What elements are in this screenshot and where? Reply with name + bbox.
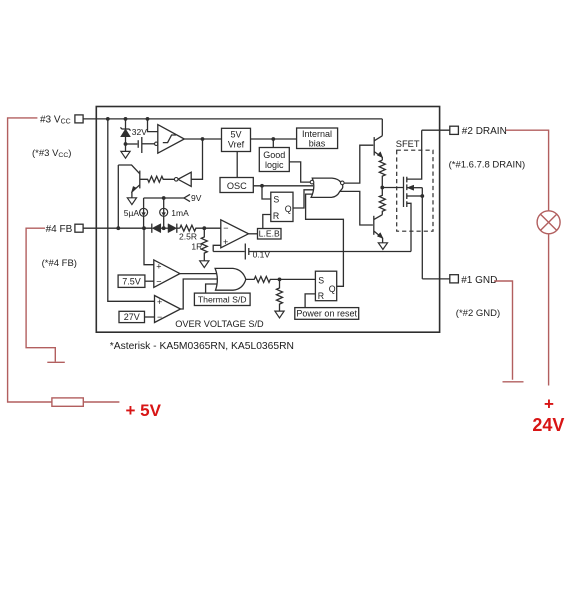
- svg-text:−: −: [223, 223, 228, 233]
- wire OSC dot to S input: [262, 186, 271, 199]
- svg-text:7.5V: 7.5V: [122, 276, 141, 286]
- ground arrow below zener: [125, 144, 127, 151]
- svg-text:bias: bias: [309, 139, 326, 149]
- block Internal bias: [297, 128, 338, 149]
- wire Vcc tap to comparator noninverting input: [148, 119, 158, 132]
- wire Good logic to NOR input 1: [289, 162, 310, 182]
- svg-text:OVER VOLTAGE S/D: OVER VOLTAGE S/D: [175, 319, 264, 329]
- svg-text:24V: 24V: [532, 415, 564, 435]
- transistor Q1 FB pulldown: [139, 171, 141, 189]
- resistor 1R (vertical): [201, 228, 207, 260]
- wire sense comparator plus input: [213, 245, 221, 251]
- node dot between diodes: [162, 226, 166, 230]
- node dot OSC output: [260, 184, 264, 188]
- svg-text:32V: 32V: [132, 127, 147, 137]
- block Thermal S/D: [194, 293, 250, 305]
- wire Vcc rail corner to Q2 collector: [381, 119, 383, 136]
- block OSC: [220, 178, 253, 193]
- svg-text:+: +: [223, 237, 228, 247]
- wire 27V box to minus input: [145, 316, 155, 318]
- block 27V: [119, 311, 145, 322]
- zener diode 32V anode wire: [125, 119, 127, 129]
- svg-text:logic: logic: [265, 160, 284, 170]
- svg-text:S: S: [318, 275, 324, 285]
- wire NOR output to upper driver base: [344, 145, 373, 183]
- wire sense rail right: [249, 251, 411, 253]
- block Power on reset: [295, 308, 359, 320]
- pin #2 DRAIN square: [450, 126, 459, 134]
- wire Vcc rail: [108, 118, 383, 120]
- pin #3 Vcc square: [75, 115, 83, 123]
- svg-text:+: +: [544, 395, 554, 414]
- wire red drain to lamp: [506, 130, 549, 211]
- current source 1mA: [163, 198, 165, 208]
- mosfet body arrow stub: [407, 187, 423, 189]
- svg-text:Good: Good: [263, 150, 285, 160]
- wire Vcc to 27V comparator (long vertical): [108, 119, 155, 301]
- ground arrow below Q3: [378, 243, 387, 250]
- ground arrow below Q1: [127, 198, 136, 205]
- mosfet source stub to gnd: [421, 188, 423, 279]
- svg-text:−: −: [157, 312, 162, 322]
- svg-text:Q: Q: [285, 204, 292, 214]
- svg-text:*Asterisk - KA5M0365RN, KA5L03: *Asterisk - KA5M0365RN, KA5L0365RN: [110, 341, 294, 352]
- svg-text:#2 DRAIN: #2 DRAIN: [462, 126, 507, 137]
- svg-text:(*#3 VCC): (*#3 VCC): [32, 148, 71, 159]
- zener diode 32V: [121, 129, 130, 136]
- ground arrow below OVP resistor: [275, 311, 284, 318]
- wire comparator output down to inverter input: [191, 139, 202, 179]
- ground arrow below 1R: [200, 261, 209, 268]
- node dot 2.5R-1R: [202, 226, 206, 230]
- svg-text:+: +: [157, 297, 162, 307]
- node dot FB-5uA-7.5V: [142, 226, 146, 230]
- node dot comparator output: [201, 137, 205, 141]
- op-amp U1 UVLO hysteresis comparator: [158, 125, 185, 154]
- pin #1 GND square: [450, 275, 459, 283]
- block Good logic: [259, 148, 289, 172]
- node dot gate drive: [380, 186, 384, 190]
- wire Vref to Internal bias: [251, 138, 297, 140]
- node dot Vcc-comparator tap: [146, 117, 150, 121]
- terminal 9V chevron: [184, 194, 190, 201]
- svg-text:R: R: [318, 291, 324, 301]
- svg-text:1mA: 1mA: [171, 208, 189, 218]
- battery reference to comparator: [126, 143, 138, 145]
- wire comparator output to Vref: [184, 138, 221, 140]
- battery 0.1V: [244, 244, 246, 260]
- wire red GND return: [494, 281, 512, 380]
- resistor 2.5R: [180, 225, 221, 231]
- svg-text:+: +: [156, 262, 161, 272]
- wire sense comparator output to LEB: [249, 233, 258, 235]
- block 5V Vref: [222, 128, 251, 151]
- svg-text:Q: Q: [329, 284, 336, 294]
- svg-text:27V: 27V: [124, 312, 140, 322]
- pin #4 FB square: [75, 224, 83, 232]
- node dot zener bottom: [124, 142, 128, 146]
- svg-text:5V: 5V: [230, 130, 241, 140]
- wire LEB to R input: [263, 215, 271, 229]
- wire pin4 into box (FB line start): [83, 227, 152, 229]
- svg-text:+ 5V: + 5V: [126, 401, 162, 420]
- wire red FB ground: [26, 228, 55, 361]
- node dot source-body: [420, 194, 424, 198]
- node dot FB-Q1: [116, 226, 120, 230]
- wire NOR lower output to lower driver base: [340, 191, 373, 225]
- gate U5 driver NOR (4-input): [311, 178, 343, 197]
- wire 9V line: [144, 197, 184, 199]
- wire FB to 7.5V comparator: [144, 228, 154, 265]
- wire dot to Good logic: [272, 139, 274, 148]
- svg-text:OSC: OSC: [227, 181, 247, 191]
- mosfet SFET gate bar: [403, 177, 405, 207]
- svg-text:Thermal S/D: Thermal S/D: [198, 295, 247, 305]
- resistor upper driver: [379, 160, 385, 187]
- wire OVP gate output through resistor: [246, 276, 316, 282]
- current source 5uA: [143, 198, 145, 208]
- wire red Vcc supply: [8, 118, 52, 402]
- resistor OVP pulldown (vertical): [277, 279, 283, 311]
- node dot OVP resistor junction: [278, 278, 282, 282]
- svg-text:SFET: SFET: [396, 139, 420, 149]
- wire pin3 to rail: [83, 118, 108, 120]
- svg-text:R: R: [273, 211, 279, 221]
- svg-text:#3 VCC: #3 VCC: [40, 114, 71, 125]
- svg-text:S: S: [273, 195, 279, 205]
- svg-text:5µA: 5µA: [124, 208, 140, 218]
- bubble NOR input 1: [310, 180, 314, 184]
- node dot Vref output: [271, 137, 275, 141]
- bubble inverter output: [174, 178, 178, 182]
- dashed box SFET: [397, 150, 433, 231]
- svg-text:9V: 9V: [191, 193, 202, 203]
- latch U9 (protection S/R): [315, 271, 336, 301]
- mosfet SFET channel segments: [406, 177, 408, 207]
- wire 7.5V box to minus input: [145, 280, 154, 282]
- svg-text:2.5R: 2.5R: [179, 231, 197, 241]
- op-amp U7 OVP comparator: [155, 296, 181, 323]
- node dot Vcc-27V tap: [106, 117, 110, 121]
- wire Q output to NOR input 3: [293, 190, 313, 208]
- op-amp U6 FB comparator: [154, 260, 180, 288]
- resistor external 5V (red box): [52, 398, 83, 406]
- op-amp U3 current sense comparator: [221, 220, 249, 248]
- bubble NOR output: [341, 181, 345, 185]
- block 7.5V: [118, 275, 145, 287]
- svg-text:Vref: Vref: [228, 140, 245, 150]
- mosfet sense stub: [407, 203, 411, 251]
- wire pin2 into box: [422, 129, 450, 131]
- svg-text:(*#4 FB): (*#4 FB): [42, 258, 77, 269]
- svg-text:#1 GND: #1 GND: [461, 275, 497, 286]
- svg-text:Power on reset: Power on reset: [296, 308, 357, 318]
- wire U9 Q output up to NOR input 4: [306, 194, 344, 286]
- transistor Q2 upper driver: [373, 137, 375, 155]
- inverter U2 (facing left): [178, 172, 191, 186]
- IC package box U0: [96, 107, 439, 333]
- latch U4 (PWM S/R): [271, 192, 293, 221]
- svg-text:1R: 1R: [191, 241, 202, 251]
- bubble on comparator inverting input: [155, 142, 158, 145]
- diode D2 (pointing right): [168, 224, 177, 233]
- diode D1 (pointing left): [151, 224, 153, 233]
- wire red resistor to +5V: [83, 401, 119, 403]
- wire red lamp to 24V: [548, 234, 550, 386]
- wire Vref to OSC: [236, 151, 238, 178]
- ground bar 24V return: [503, 381, 524, 383]
- resistor base R: [140, 176, 175, 182]
- svg-text:(*#1.6.7.8 DRAIN): (*#1.6.7.8 DRAIN): [449, 159, 526, 170]
- gate U8 OVP OR: [215, 268, 246, 290]
- wire U6 output to OVP gate input 1: [180, 273, 217, 275]
- svg-text:Internal: Internal: [302, 129, 332, 139]
- lamp L1: [537, 211, 560, 234]
- wire Thermal S/D to OVP gate: [206, 284, 217, 293]
- transistor Q3 lower driver: [373, 216, 375, 235]
- wire Q1 collector to FB line: [117, 165, 119, 228]
- ground bar FB: [47, 361, 65, 363]
- svg-text:−: −: [156, 276, 161, 286]
- wire U7 output to OVP gate input 2: [181, 279, 218, 309]
- svg-text:#4 FB: #4 FB: [46, 224, 73, 235]
- wire sense rail left: [213, 251, 244, 253]
- node dot 9V-1mA: [162, 196, 166, 200]
- wire power on reset to R input: [305, 294, 315, 308]
- svg-text:L.E.B: L.E.B: [259, 229, 280, 239]
- block L.E.B: [258, 229, 282, 240]
- node dot Vcc-zener tap: [124, 117, 128, 121]
- resistor lower driver: [379, 188, 385, 215]
- svg-text:(*#2 GND): (*#2 GND): [456, 308, 500, 319]
- wire gate drive to SFET gate: [382, 187, 403, 189]
- wire OSC to NOR input 2: [253, 185, 313, 187]
- wire pin1 into box: [422, 278, 450, 280]
- mosfet drain stub: [407, 130, 422, 179]
